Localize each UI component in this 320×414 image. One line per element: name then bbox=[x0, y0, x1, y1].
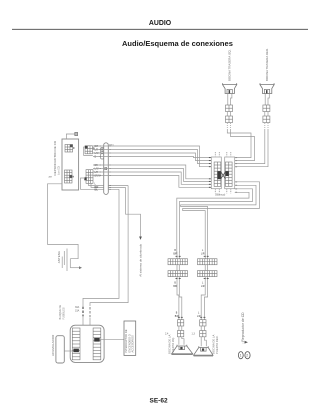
svg-text:AUDIO: AUDIO bbox=[149, 20, 172, 27]
junction right connector ladder bbox=[225, 162, 232, 186]
fusible link dashes left bbox=[82, 307, 84, 317]
stub wires bbox=[178, 326, 180, 331]
ignition switch label box bbox=[124, 321, 136, 355]
wire labels above door speaker connectors bbox=[175, 313, 201, 319]
svg-text:PUERTA IZQ.: PUERTA IZQ. bbox=[171, 337, 175, 354]
inline connector strip pair A upper bbox=[168, 259, 188, 265]
svg-text:Al sistema de alumbrado: Al sistema de alumbrado bbox=[139, 243, 143, 276]
svg-text:2: 2 bbox=[246, 354, 248, 358]
fuse ladder right bbox=[93, 328, 101, 360]
wire speaker feed 1 bbox=[93, 146, 211, 167]
speaker plug connector bbox=[178, 331, 184, 337]
stub wires bbox=[200, 326, 202, 331]
svg-text:15A: 15A bbox=[75, 310, 80, 313]
speaker plug connector bbox=[200, 331, 206, 337]
svg-text:ANTENA: ANTENA bbox=[57, 251, 61, 263]
speaker plug connector bbox=[226, 105, 233, 112]
wire battery to fuse bbox=[64, 350, 73, 352]
inline connector strip pair B upper bbox=[198, 259, 218, 265]
fuse block body bbox=[70, 325, 104, 362]
svg-text:L/R: L/R bbox=[201, 253, 205, 255]
wire colour labels power band bbox=[95, 184, 99, 192]
stub wires between connectors bbox=[264, 112, 266, 117]
wires strip B down to front-right door speaker bbox=[201, 277, 205, 320]
arrow to lighting system bbox=[139, 237, 142, 240]
antenna lead wire from CD player top bbox=[66, 134, 75, 139]
stub wires between strip pair B bbox=[204, 265, 206, 271]
dotted harness continuation bbox=[265, 123, 268, 129]
wires strip A down to front-left door speaker bbox=[177, 277, 179, 320]
accessory branch wire bbox=[126, 187, 141, 236]
svg-text:(Blanco): (Blanco) bbox=[215, 193, 225, 197]
svg-text:L/R: L/R bbox=[201, 286, 205, 288]
junction left dark pin fill bbox=[217, 171, 220, 179]
speaker stem wires bbox=[264, 94, 266, 106]
svg-text:AIE: AIE bbox=[49, 176, 53, 179]
wire from CD player to antenna bbox=[48, 184, 79, 259]
svg-text:SE-62: SE-62 bbox=[150, 397, 168, 404]
front door speaker right bbox=[192, 320, 219, 356]
wire labels above strip pair right bbox=[201, 250, 205, 255]
stub wires between strip pair A bbox=[176, 265, 178, 271]
antenna plug connector bbox=[75, 132, 78, 135]
svg-text:PUERTA DER.: PUERTA DER. bbox=[215, 335, 219, 354]
svg-text:1: 1 bbox=[240, 354, 242, 358]
rear speaker right assembly bbox=[260, 48, 274, 129]
fuse element mark left bbox=[73, 349, 79, 353]
harness side connector bbox=[178, 320, 184, 326]
svg-text:: Reproductor de CD: : Reproductor de CD bbox=[241, 312, 245, 344]
tick marks right of bar bbox=[109, 146, 111, 189]
footnote connector badge 2 bbox=[245, 352, 250, 359]
wire colour labels left of bar top group bbox=[95, 146, 100, 159]
speaker cone front left bbox=[172, 345, 193, 354]
loop wire under upper grid bbox=[84, 147, 93, 155]
svg-text:B/R: B/R bbox=[173, 286, 177, 288]
fuse ladder left bbox=[72, 328, 80, 360]
wire labels below strips bbox=[173, 283, 205, 289]
svg-text:Audio/Esquema de conexiones: Audio/Esquema de conexiones bbox=[122, 39, 233, 48]
speaker plug connector bbox=[263, 105, 270, 112]
harness loop below junction wire 1 bbox=[183, 182, 260, 259]
harness side connector bbox=[226, 116, 233, 123]
CD player unit box bbox=[62, 139, 79, 190]
loop wires from lower grid feeding power band bbox=[81, 178, 120, 189]
harness loop below junction wire 3 bbox=[179, 189, 252, 259]
header rule bbox=[12, 28, 308, 30]
junction left tick marks bbox=[209, 158, 211, 188]
wire rear-left speaker minus bbox=[231, 129, 255, 161]
wire rear-left speaker plus bbox=[227, 129, 251, 158]
speaker cone rear left bbox=[223, 83, 237, 93]
svg-text:ACUMULADOR: ACUMULADOR bbox=[51, 334, 55, 356]
wire rear-right speaker plus bbox=[235, 129, 265, 164]
antenna symbol bbox=[62, 249, 79, 272]
svg-text:FUSIBLES: FUSIBLES bbox=[62, 307, 65, 319]
svg-text:ACCESORIOS: ACCESORIOS bbox=[131, 335, 135, 353]
fusible link dashes right bbox=[89, 307, 91, 317]
harness side connector bbox=[263, 116, 270, 123]
speaker cone front right bbox=[194, 346, 213, 355]
junction mating cross mark bbox=[221, 172, 226, 179]
front door speaker left bbox=[165, 320, 193, 355]
sub connector on bar left second bbox=[101, 154, 104, 159]
pin ticks above door connectors bbox=[178, 316, 206, 318]
footnote connector badge 1 bbox=[238, 352, 243, 359]
speaker stem wires bbox=[200, 337, 202, 348]
harness connector grid lower (mates CD bottom grid) bbox=[84, 170, 93, 184]
speaker cone rear right bbox=[260, 83, 274, 93]
pin ticks above strips bbox=[176, 255, 209, 257]
wire front feed 2 bbox=[93, 169, 211, 182]
wire speaker feed 3 bbox=[93, 153, 211, 161]
svg-text:(con CD): (con CD) bbox=[59, 166, 61, 175]
harness loop below junction wire 2 bbox=[181, 185, 256, 258]
speaker stem wires bbox=[227, 94, 229, 106]
footnote arrow bbox=[245, 341, 248, 344]
battery bbox=[56, 336, 64, 363]
wire front feed 1 bbox=[93, 165, 211, 179]
stub wires between connectors bbox=[226, 112, 228, 117]
pin ticks below strips bbox=[176, 278, 209, 280]
wire speaker feed 4 bbox=[93, 157, 211, 158]
junction right connector shell bbox=[225, 157, 235, 189]
dark pin marks in sub connector bbox=[101, 149, 103, 150]
bar centre key notch bbox=[105, 168, 107, 170]
svg-text:BOCINA TRASERA IZQ.: BOCINA TRASERA IZQ. bbox=[227, 49, 231, 81]
junction right tick marks bbox=[235, 158, 237, 193]
harness bar connector M33 bbox=[104, 143, 109, 195]
speaker stem wires bbox=[178, 337, 180, 346]
wire front feed 4 bbox=[93, 176, 211, 188]
svg-text:BOCINA TRASERA DER.: BOCINA TRASERA DER. bbox=[265, 48, 269, 81]
wire fuse to ignition switch bbox=[100, 338, 124, 340]
junction left connector shell bbox=[211, 157, 221, 189]
antenna output arrow bbox=[79, 266, 82, 269]
junction left connector ladder bbox=[214, 162, 221, 186]
wire speaker feed 2 bbox=[93, 150, 211, 164]
power wire to fuse block via x128 bbox=[90, 186, 128, 307]
harness side connector bbox=[200, 320, 206, 326]
CD player connector grid top bbox=[65, 145, 75, 153]
wire rear-right speaker minus bbox=[235, 129, 268, 167]
harness continuation dashes above junction bbox=[215, 152, 231, 157]
sub connector on bar top left bbox=[101, 148, 104, 154]
wire colour labels left of bar middle group bbox=[95, 165, 102, 178]
fuse element mark right bbox=[94, 338, 100, 342]
pin dash marks left of bar bbox=[100, 146, 101, 176]
power wire to fuse block via x119 bbox=[83, 189, 119, 306]
svg-text:B/R: B/R bbox=[173, 253, 177, 255]
harness loop below junction wire 4 bbox=[177, 192, 249, 258]
rear speaker left assembly bbox=[223, 49, 237, 129]
inline connector strip pair A lower bbox=[168, 271, 188, 277]
junction right dark pin fill bbox=[225, 171, 228, 176]
CD player connector grid bottom bbox=[65, 170, 75, 183]
wires into fuse block bbox=[82, 317, 84, 328]
wire labels above strip pair left bbox=[173, 250, 177, 255]
harness connector grid upper (mates CD top grid) bbox=[85, 146, 95, 154]
svg-text:REPRODUCTOR DE CD: REPRODUCTOR DE CD bbox=[53, 140, 57, 175]
inline connector strip pair B lower bbox=[198, 271, 218, 277]
wire front feed 3 bbox=[93, 172, 211, 184]
dotted harness continuation bbox=[227, 123, 230, 129]
harness continuation dashes below junction bbox=[215, 189, 231, 194]
